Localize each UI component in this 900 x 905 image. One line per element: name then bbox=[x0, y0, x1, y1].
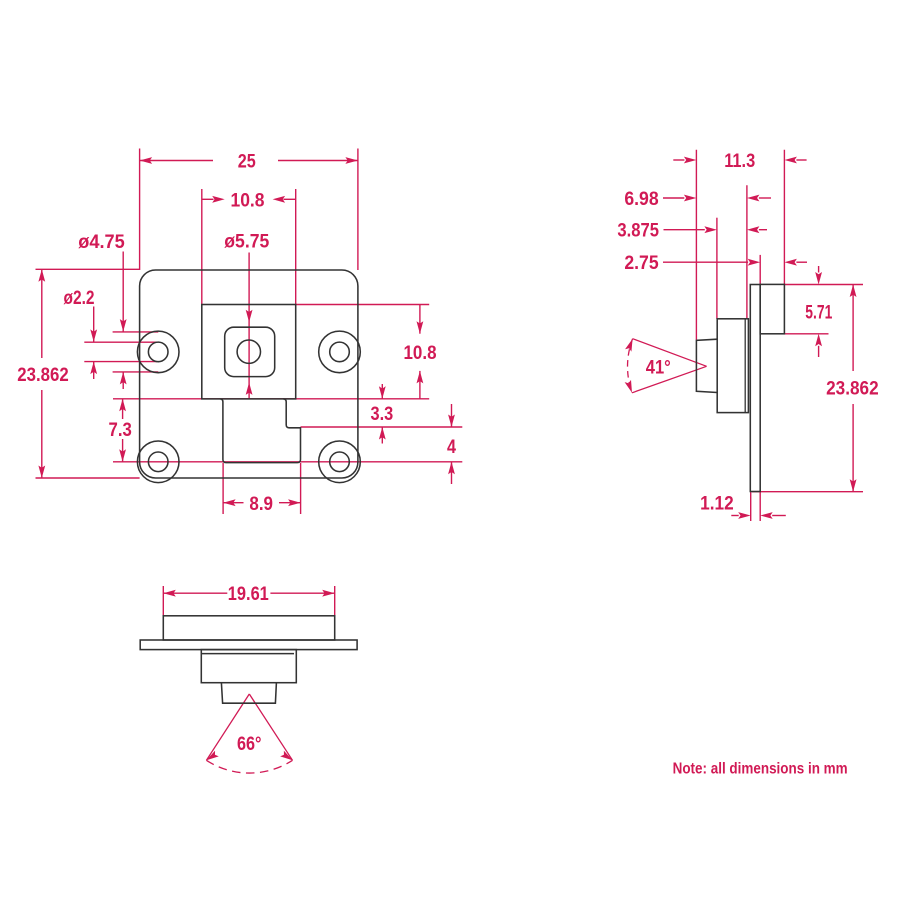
ø4.75 bottom leader horizontal bbox=[113, 371, 159, 373]
dim 1.12 left arrow bbox=[738, 512, 751, 519]
svg-text:25: 25 bbox=[238, 151, 256, 173]
dim 3.3 bottom line bbox=[301, 426, 463, 428]
front view: lens bezel rounded square bbox=[225, 327, 275, 376]
svg-text:3.875: 3.875 bbox=[617, 220, 659, 242]
side ext line E (connector back) bbox=[783, 150, 785, 285]
dim 19.61 right arrow bbox=[322, 590, 335, 597]
dim 4 lower arrow tail bbox=[451, 462, 453, 484]
svg-text:2.75: 2.75 bbox=[624, 252, 658, 274]
dim 10.8 top right extension bbox=[295, 189, 297, 305]
cone arc bottom arrow bbox=[625, 380, 636, 394]
cone upper edge bbox=[633, 339, 707, 367]
cone 66 right edge bbox=[249, 694, 292, 760]
dim 25 left extension line bbox=[139, 149, 141, 271]
dim 3.875 arrow tail bbox=[664, 229, 705, 231]
cone 66 dashed arc bbox=[206, 760, 292, 773]
ø4.75 leader vertical bbox=[122, 252, 124, 332]
bottom view: lens holder inner line bbox=[202, 653, 294, 655]
side ext line C (pcb front) bbox=[746, 185, 748, 319]
side view: lens holder bbox=[717, 319, 748, 413]
dim 3.875 right-pointing arrow bbox=[704, 226, 717, 233]
side ext line D (pcb back) bbox=[759, 255, 761, 285]
cone arc top arrow bbox=[625, 338, 636, 352]
dim 25 line left segment bbox=[140, 160, 213, 162]
dim 23.862 side line lower segment bbox=[852, 404, 854, 492]
side ext line A (lens front) bbox=[695, 150, 697, 340]
front view: top-left mounting hole outer bbox=[137, 331, 179, 373]
svg-text:ø2.2: ø2.2 bbox=[64, 287, 95, 309]
ø5.75 lower arrow (up) bbox=[246, 382, 253, 395]
ø4.75 upper arrow (down) bbox=[120, 319, 127, 332]
dim 6.98 left-pointing arrow bbox=[747, 195, 760, 202]
front view: lens aperture circle bbox=[237, 340, 260, 363]
svg-text:8.9: 8.9 bbox=[249, 493, 273, 515]
dim 2.75 left-pointing arrow bbox=[784, 259, 797, 266]
dim 11.3 left arrow tail bbox=[673, 159, 684, 161]
svg-text:ø5.75: ø5.75 bbox=[224, 231, 269, 253]
side view: lens holder inner face line bbox=[744, 319, 746, 413]
dim 3.875 second arrow tail bbox=[759, 229, 767, 231]
dim 6.98 second arrow tail bbox=[759, 197, 771, 199]
dim 3.3 upper arrow (down) bbox=[379, 386, 386, 399]
cone 66 left arrow bbox=[205, 751, 219, 763]
cone lower edge bbox=[632, 366, 707, 393]
front view: top-right mounting hole outer bbox=[319, 331, 361, 373]
dim 1.12 left arrow tail bbox=[731, 515, 738, 517]
dim 23.862 bottom arrow bbox=[38, 466, 45, 479]
dim 11.3 right arrow tail bbox=[796, 159, 806, 161]
dim 23.862 side line upper segment bbox=[852, 285, 854, 372]
dim 19.61 right extension bbox=[334, 586, 336, 616]
dim 25 right arrow bbox=[345, 157, 358, 164]
reference line through lower hole centers bbox=[113, 461, 462, 463]
dim 10.8 top line right segment bbox=[284, 198, 296, 200]
svg-text:11.3: 11.3 bbox=[724, 150, 755, 172]
side view: flex connector block bbox=[760, 284, 784, 333]
bottom view: lens holder bbox=[201, 650, 296, 683]
svg-text:10.8: 10.8 bbox=[231, 189, 265, 211]
dim 19.61 line left segment bbox=[163, 592, 227, 594]
dim 23.862 bottom extension bbox=[36, 477, 140, 479]
svg-text:7.3: 7.3 bbox=[109, 419, 132, 441]
front view: PCB plate outline bbox=[140, 270, 358, 478]
dim 5.71 upper arrow (down) bbox=[815, 272, 822, 285]
cone 66 right arrow bbox=[280, 751, 294, 763]
dim 8.9 right extension bbox=[300, 463, 302, 514]
front view: flex connector outline with notch bbox=[220, 399, 301, 463]
dim 23.862 top arrow bbox=[38, 269, 45, 282]
dim 7.3 bottom arrow bbox=[119, 449, 126, 462]
side view: PCB bbox=[750, 285, 760, 492]
dim 6.98 arrow tail bbox=[663, 197, 684, 199]
dim 2.75 second arrow tail bbox=[796, 261, 807, 263]
cone 66 left edge bbox=[206, 694, 249, 760]
dim 4 upper arrow (down) bbox=[448, 415, 455, 428]
dim 8.9 left arrow bbox=[223, 499, 236, 506]
reference line at lens-square bottom bbox=[113, 398, 429, 400]
svg-text:6.98: 6.98 bbox=[624, 188, 658, 210]
right 10.8 line upper segment bbox=[419, 305, 421, 334]
dim 25 left arrow bbox=[140, 157, 153, 164]
dim 19.61 left extension bbox=[162, 586, 164, 616]
dim 5.71 top line / 23.862 top extension bbox=[784, 284, 863, 286]
dim 1.12 right arrow bbox=[760, 512, 773, 519]
dim 5.71 lower arrow tail bbox=[818, 346, 820, 357]
bottom view: lens barrel bbox=[221, 683, 276, 704]
dim 25 line right segment bbox=[278, 160, 358, 162]
dim 10.8 top left extension bbox=[201, 189, 203, 305]
svg-text:23.862: 23.862 bbox=[826, 378, 879, 400]
right 10.8 lower arrow (inward) bbox=[417, 371, 424, 384]
cone dashed arc bbox=[628, 339, 633, 393]
dim 3.3 lower arrow tail bbox=[381, 427, 383, 444]
svg-text:10.8: 10.8 bbox=[404, 342, 437, 364]
dim 7.3 line lower segment bbox=[122, 439, 124, 462]
dim 1.12 right arrow tail bbox=[772, 515, 786, 517]
svg-text:19.61: 19.61 bbox=[228, 583, 269, 605]
dim 3.3 lower arrow (up) bbox=[379, 427, 386, 440]
dim 23.862 top extension bbox=[36, 268, 140, 270]
ø2.2 lower arrow tail bbox=[93, 362, 95, 379]
ø4.75 lower arrow (up) bbox=[120, 372, 127, 385]
dim 10.8 top left arrow (inward) bbox=[212, 196, 225, 203]
dim 8.9 line left segment bbox=[223, 502, 243, 504]
front view: bottom-right mounting hole inner bbox=[330, 452, 350, 472]
ø2.2 top leader horizontal bbox=[84, 341, 157, 343]
ø4.75 top leader horizontal bbox=[113, 331, 159, 333]
dim 4 upper arrow tail bbox=[451, 404, 453, 427]
dim 10.8 top right arrow (inward) bbox=[273, 196, 286, 203]
dim 19.61 line right segment bbox=[270, 592, 334, 594]
side view: lens barrel (slightly tapered) bbox=[696, 339, 717, 392]
svg-text:Note: all dimensions in mm: Note: all dimensions in mm bbox=[673, 760, 848, 777]
dim 19.61 left arrow bbox=[163, 590, 176, 597]
dim 8.9 line right segment bbox=[279, 502, 301, 504]
dim 23.862 line lower segment bbox=[41, 390, 43, 478]
front view: bottom-left mounting hole inner bbox=[148, 452, 168, 472]
dim 6.98 right-pointing arrow bbox=[684, 195, 697, 202]
dim 23.862 side bottom extension bbox=[752, 491, 863, 493]
dim 5.71 upper arrow tail bbox=[818, 266, 820, 273]
dim 2.75 arrow tail bbox=[663, 261, 748, 263]
ø2.2 leader vertical bbox=[93, 307, 95, 342]
ø5.75 leader line bbox=[248, 253, 250, 399]
dim 10.8 top line left segment bbox=[202, 198, 214, 200]
dim 3.875 left-pointing arrow bbox=[747, 226, 760, 233]
svg-text:1.12: 1.12 bbox=[700, 493, 734, 515]
dim 23.862 side bottom arrow bbox=[850, 479, 857, 492]
dim 2.75 right-pointing arrow bbox=[748, 259, 761, 266]
dim 5.71 bottom line bbox=[784, 333, 828, 335]
ø2.2 lower arrow (up) bbox=[90, 362, 97, 375]
right 10.8 line lower segment bbox=[419, 371, 421, 399]
dim 3.3 upper arrow tail bbox=[381, 384, 383, 399]
svg-text:ø4.75: ø4.75 bbox=[78, 231, 125, 253]
ø2.2 upper arrow (down) bbox=[90, 329, 97, 342]
svg-text:4: 4 bbox=[447, 436, 456, 458]
dim 23.862 line upper segment bbox=[41, 269, 43, 358]
svg-text:5.71: 5.71 bbox=[805, 302, 832, 324]
dim 23.862 side top arrow bbox=[850, 285, 857, 298]
dim 11.3 left arrow bbox=[684, 157, 697, 164]
side ext line B (holder front) bbox=[716, 218, 718, 319]
front view: sensor housing square bbox=[202, 305, 296, 399]
svg-text:3.3: 3.3 bbox=[371, 403, 394, 425]
bottom view: PCB bbox=[140, 640, 357, 650]
ø2.2 bottom leader horizontal bbox=[84, 361, 157, 363]
dim 8.9 left extension bbox=[222, 463, 224, 514]
dim 8.9 right arrow bbox=[288, 499, 301, 506]
ø5.75 upper arrow (down) bbox=[246, 310, 253, 323]
front view: bottom-left mounting hole outer bbox=[137, 441, 179, 483]
svg-text:66°: 66° bbox=[237, 733, 262, 755]
front view: top-left mounting hole inner bbox=[148, 342, 168, 362]
dim 11.3 right arrow bbox=[784, 157, 797, 164]
front view: top-right mounting hole inner bbox=[330, 342, 350, 362]
right 10.8 upper arrow (inward) bbox=[417, 321, 424, 334]
dim 1.12 right extension bbox=[759, 492, 761, 521]
right 10.8 top extension line bbox=[296, 304, 430, 306]
dim 5.71 lower arrow (up) bbox=[815, 334, 822, 347]
dim 1.12 left extension bbox=[750, 492, 752, 521]
front view: bottom-right mounting hole outer bbox=[319, 441, 361, 483]
svg-text:41°: 41° bbox=[646, 356, 671, 378]
bottom view: flex connector bbox=[163, 616, 334, 640]
dim 25 right extension line bbox=[357, 149, 359, 271]
ø4.75 lower arrow tail bbox=[122, 372, 124, 389]
dim 4 lower arrow (up) bbox=[448, 462, 455, 475]
dim 7.3 line upper segment bbox=[122, 399, 124, 419]
svg-text:23.862: 23.862 bbox=[17, 364, 69, 386]
dim 7.3 top arrow bbox=[119, 399, 126, 412]
